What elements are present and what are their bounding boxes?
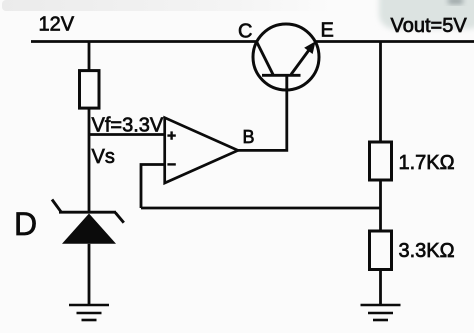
svg-text:3.3KΩ: 3.3KΩ [399,240,455,262]
svg-text:C: C [238,21,252,43]
svg-text:12V: 12V [39,13,75,35]
svg-text:Vf=3.3V: Vf=3.3V [92,114,164,136]
svg-text:B: B [243,127,255,147]
svg-text:E: E [321,20,334,42]
svg-text:Vs: Vs [92,146,115,168]
svg-text:D: D [14,206,37,242]
svg-text:Vout=5V: Vout=5V [391,15,468,37]
svg-text:1.7KΩ: 1.7KΩ [399,152,455,174]
